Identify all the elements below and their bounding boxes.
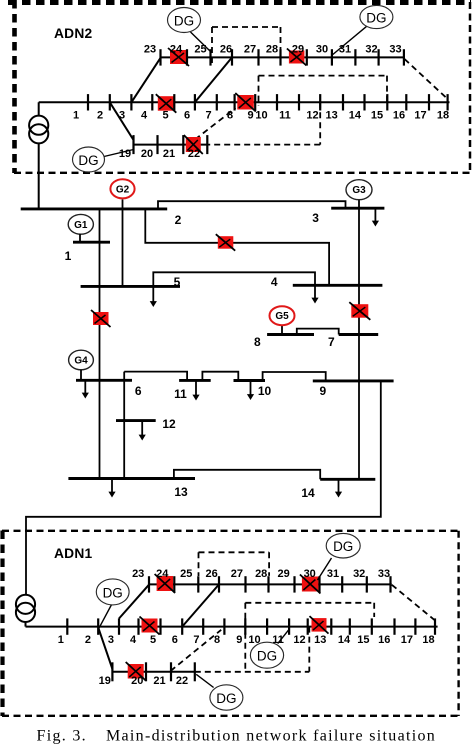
svg-text:2: 2 <box>175 213 182 227</box>
svg-text:4: 4 <box>130 634 137 646</box>
svg-text:18: 18 <box>437 109 449 121</box>
svg-text:11: 11 <box>279 109 291 121</box>
svg-text:1: 1 <box>73 109 79 121</box>
svg-text:12: 12 <box>306 109 318 121</box>
svg-text:11: 11 <box>174 387 187 401</box>
svg-text:29: 29 <box>277 568 289 580</box>
svg-text:13: 13 <box>325 109 337 121</box>
svg-text:30: 30 <box>316 43 328 55</box>
svg-text:9: 9 <box>247 109 253 121</box>
svg-text:G1: G1 <box>74 220 88 231</box>
svg-text:6: 6 <box>172 634 178 646</box>
svg-text:1: 1 <box>65 249 72 263</box>
svg-text:DG: DG <box>78 153 98 168</box>
svg-text:33: 33 <box>378 568 390 580</box>
svg-text:27: 27 <box>231 568 243 580</box>
svg-text:15: 15 <box>371 109 383 121</box>
svg-text:33: 33 <box>389 43 401 55</box>
svg-text:10: 10 <box>255 109 267 121</box>
svg-text:22: 22 <box>176 675 188 687</box>
svg-text:18: 18 <box>422 634 434 646</box>
svg-text:DG: DG <box>103 585 123 600</box>
svg-text:26: 26 <box>205 568 217 580</box>
svg-text:9: 9 <box>236 634 242 646</box>
svg-text:DG: DG <box>333 539 353 554</box>
svg-text:DG: DG <box>216 691 236 706</box>
svg-text:8: 8 <box>227 109 233 121</box>
svg-text:2: 2 <box>97 109 103 121</box>
svg-text:7: 7 <box>193 634 199 646</box>
svg-text:10: 10 <box>258 384 272 398</box>
svg-text:1: 1 <box>58 634 64 646</box>
svg-text:14: 14 <box>338 634 351 646</box>
svg-text:3: 3 <box>108 634 114 646</box>
svg-text:27: 27 <box>244 43 256 55</box>
svg-text:7: 7 <box>206 109 212 121</box>
svg-text:DG: DG <box>174 14 194 29</box>
svg-text:7: 7 <box>328 335 335 349</box>
svg-text:ADN1: ADN1 <box>54 546 92 561</box>
svg-text:16: 16 <box>393 109 405 121</box>
svg-text:ADN2: ADN2 <box>54 26 92 41</box>
svg-text:G2: G2 <box>116 184 130 195</box>
svg-text:30: 30 <box>304 568 316 580</box>
svg-text:12: 12 <box>293 634 305 646</box>
svg-text:21: 21 <box>163 148 175 160</box>
svg-text:23: 23 <box>144 43 156 55</box>
svg-text:5: 5 <box>174 275 181 289</box>
svg-text:6: 6 <box>184 109 190 121</box>
svg-text:DG: DG <box>366 11 386 26</box>
svg-text:14: 14 <box>301 486 315 500</box>
svg-text:23: 23 <box>132 568 144 580</box>
svg-text:DG: DG <box>257 649 277 664</box>
svg-text:2: 2 <box>85 634 91 646</box>
svg-text:8: 8 <box>254 335 261 349</box>
svg-text:28: 28 <box>255 568 267 580</box>
svg-text:21: 21 <box>153 675 165 687</box>
svg-text:13: 13 <box>174 485 188 499</box>
svg-text:32: 32 <box>353 568 365 580</box>
svg-text:16: 16 <box>378 634 390 646</box>
svg-text:6: 6 <box>135 384 142 398</box>
svg-text:17: 17 <box>401 634 413 646</box>
svg-text:G3: G3 <box>352 185 366 196</box>
svg-text:25: 25 <box>180 568 192 580</box>
svg-text:13: 13 <box>314 634 326 646</box>
svg-text:28: 28 <box>266 43 278 55</box>
svg-text:4: 4 <box>141 109 148 121</box>
svg-text:4: 4 <box>271 275 278 289</box>
svg-text:24: 24 <box>170 43 183 55</box>
svg-text:12: 12 <box>162 417 176 431</box>
svg-text:14: 14 <box>349 109 362 121</box>
svg-text:G4: G4 <box>74 356 88 367</box>
svg-text:32: 32 <box>365 43 377 55</box>
svg-text:9: 9 <box>319 384 326 398</box>
svg-text:26: 26 <box>220 43 232 55</box>
svg-text:8: 8 <box>214 634 220 646</box>
svg-text:5: 5 <box>162 109 168 121</box>
svg-text:5: 5 <box>150 634 156 646</box>
svg-text:G5: G5 <box>275 311 289 322</box>
svg-text:19: 19 <box>99 675 111 687</box>
svg-text:3: 3 <box>312 211 319 225</box>
svg-text:31: 31 <box>327 568 339 580</box>
svg-text:15: 15 <box>357 634 369 646</box>
svg-text:20: 20 <box>141 148 153 160</box>
svg-text:17: 17 <box>414 109 426 121</box>
